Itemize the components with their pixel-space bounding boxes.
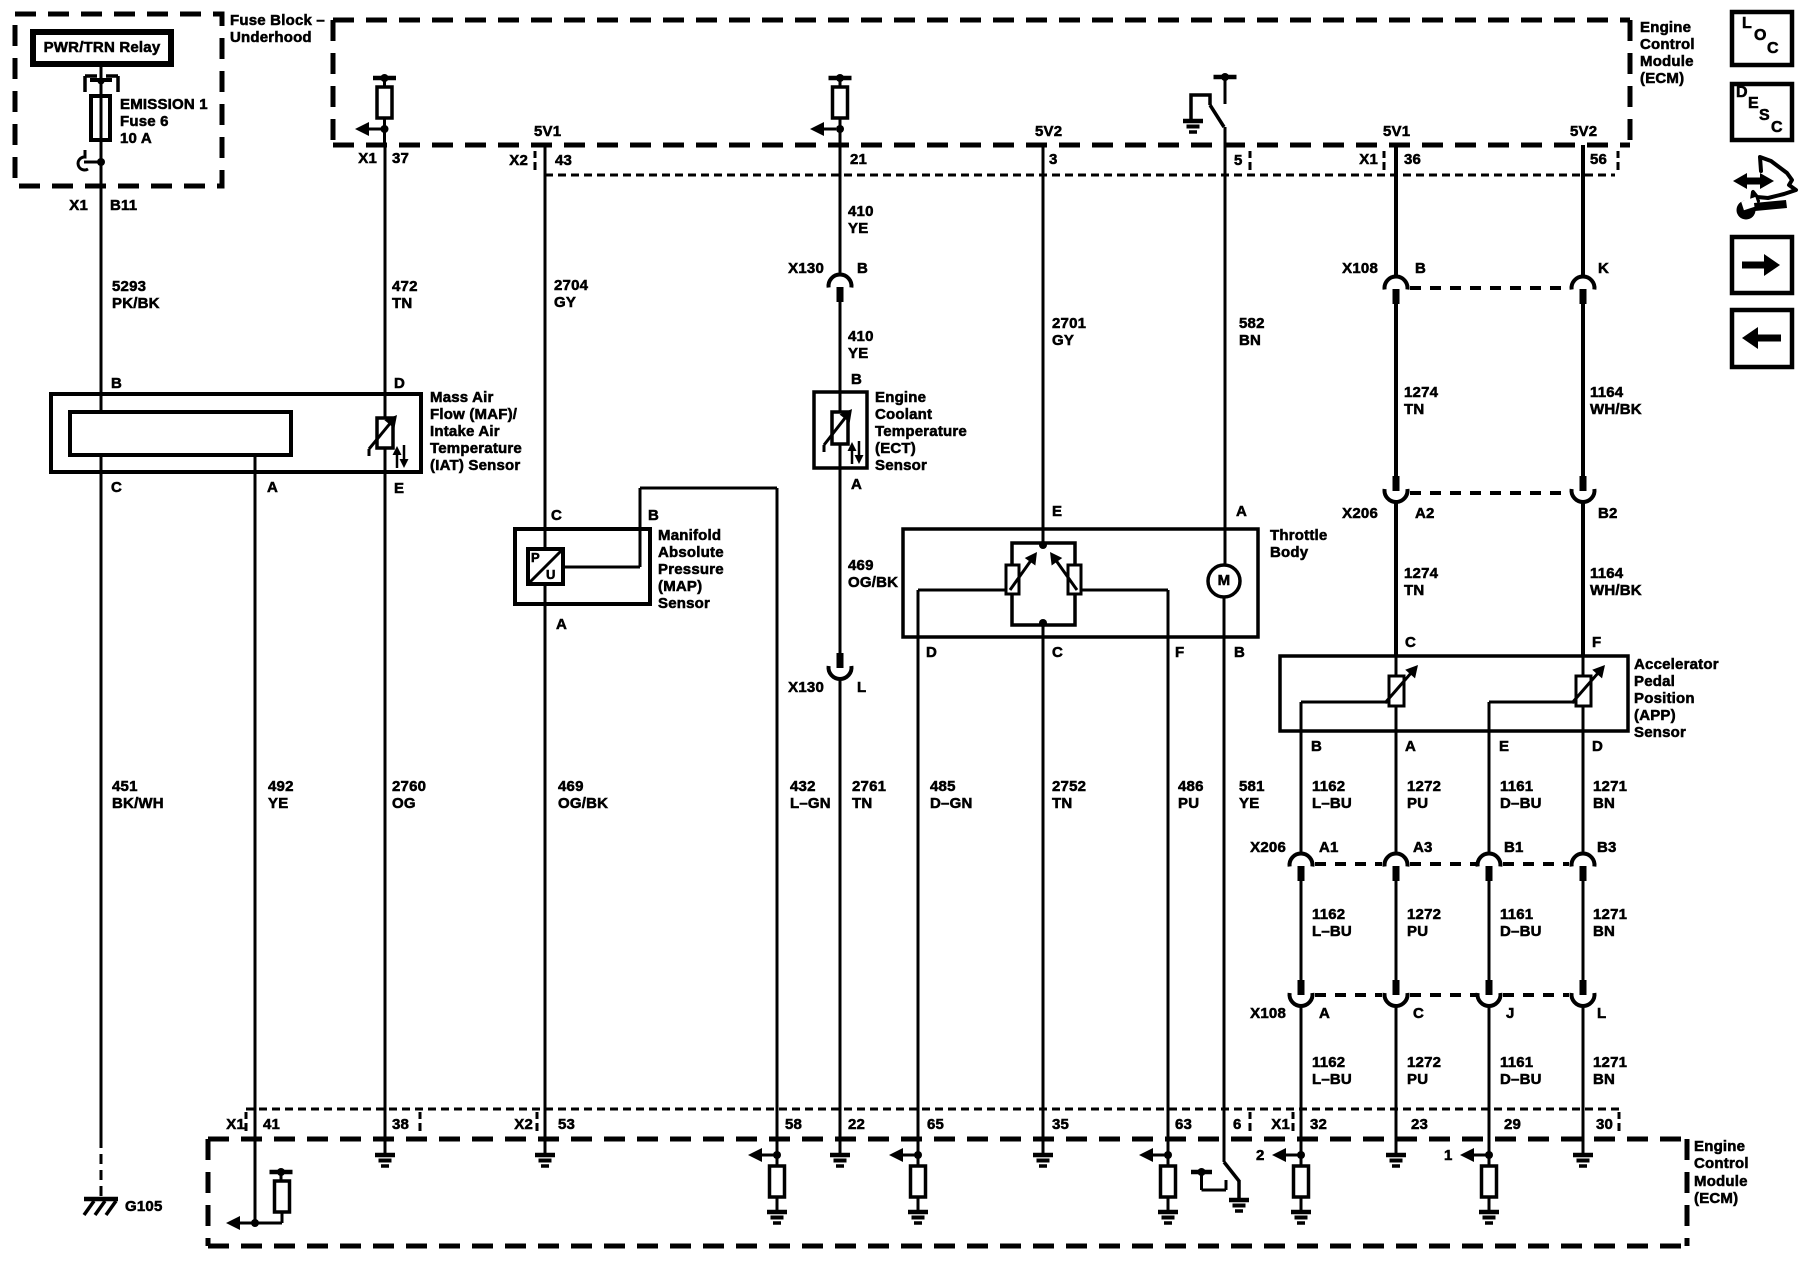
svg-text:C: C [1771, 119, 1783, 136]
svg-text:E: E [394, 480, 404, 497]
wire 451 BK/WH MAF C to G105 [100, 472, 103, 1138]
X206 A2-B2 connector dashed link [1410, 491, 1569, 495]
ECT sensor box [814, 392, 867, 468]
svg-text:5: 5 [1234, 152, 1243, 169]
svg-text:1272: 1272 [1407, 906, 1441, 923]
svg-text:1164: 1164 [1590, 384, 1624, 401]
svg-text:Flow (MAF)/: Flow (MAF)/ [430, 406, 518, 423]
in-line connector X108 pin J [1486, 980, 1493, 995]
svg-text:1271: 1271 [1593, 778, 1627, 795]
wire 1161 D-BU X206 to X108 [1488, 881, 1491, 980]
svg-text:Mass Air: Mass Air [430, 389, 494, 406]
svg-text:X1: X1 [1359, 151, 1378, 168]
svg-text:D: D [394, 375, 405, 392]
fuse block - underhood dashed box [15, 14, 222, 186]
wire 2704 GY pin43 to MAP C [544, 145, 547, 529]
APP potentiometer 1 [1389, 676, 1404, 706]
ECM internal ground at pin 30 [1582, 1142, 1585, 1155]
svg-text:BN: BN [1593, 795, 1615, 812]
svg-text:OG/BK: OG/BK [848, 574, 898, 591]
svg-text:Position: Position [1634, 690, 1695, 707]
svg-text:B2: B2 [1598, 505, 1618, 522]
svg-text:BN: BN [1593, 923, 1615, 940]
X108 B-K connector dashed link [1410, 286, 1569, 290]
wire 1272 PU X108 to pin 23 [1395, 1006, 1398, 1142]
svg-text:2760: 2760 [392, 778, 426, 795]
ECM internal arrow at pin 21 [822, 128, 836, 131]
svg-text:BK/WH: BK/WH [112, 795, 164, 812]
wire 469 OG/BK ECT A to X130 L [839, 468, 842, 653]
svg-text:2752: 2752 [1052, 778, 1086, 795]
svg-text:GY: GY [554, 294, 576, 311]
svg-text:TN: TN [1404, 401, 1424, 418]
LOC icon box [1732, 12, 1792, 65]
svg-text:X108: X108 [1250, 1005, 1286, 1022]
svg-text:5V1: 5V1 [534, 123, 561, 140]
wire 1274 TN X108 to X206 A2 [1394, 304, 1398, 476]
svg-text:WH/BK: WH/BK [1590, 582, 1642, 599]
in-line connector X130 pin L [837, 653, 844, 668]
svg-text:D–BU: D–BU [1500, 923, 1542, 940]
svg-text:D–GN: D–GN [930, 795, 972, 812]
ECM internal circuit at pin 32 [1300, 1139, 1303, 1166]
wire 1161 D-BU X108 to pin 29 [1488, 1006, 1491, 1142]
svg-text:B3: B3 [1597, 839, 1617, 856]
wire 469 OG/BK MAP A to pin 53 [544, 604, 547, 1142]
svg-text:10 A: 10 A [120, 130, 152, 147]
svg-text:U: U [546, 567, 556, 582]
in-line connector X130 pin B [829, 274, 852, 287]
svg-text:(ECT): (ECT) [875, 440, 916, 457]
harness repair icon (double arrow and wrench) [1745, 178, 1762, 185]
svg-text:E: E [1499, 738, 1509, 755]
svg-text:1162: 1162 [1312, 1054, 1345, 1071]
svg-text:A: A [267, 479, 278, 496]
ECM internal switch to ground at pin 6 [1223, 1142, 1226, 1162]
ECM internal ground at pin 53 [544, 1142, 547, 1155]
svg-text:1274: 1274 [1404, 384, 1439, 401]
svg-text:Throttle: Throttle [1270, 527, 1327, 544]
svg-text:Pressure: Pressure [658, 561, 724, 578]
in-line connector X108 pin C [1393, 980, 1400, 995]
APP pin D wire [1582, 706, 1585, 731]
ECM internal circuit at pin 58 [776, 1139, 779, 1166]
svg-text:TN: TN [1404, 582, 1424, 599]
wire 1272 PU X206 to X108 [1395, 881, 1398, 980]
svg-text:65: 65 [927, 1116, 944, 1133]
svg-text:B: B [648, 507, 659, 524]
svg-text:GY: GY [1052, 332, 1074, 349]
svg-text:472: 472 [392, 278, 418, 295]
svg-text:582: 582 [1239, 315, 1265, 332]
svg-text:(IAT) Sensor: (IAT) Sensor [430, 457, 520, 474]
svg-text:X1: X1 [226, 1116, 245, 1133]
svg-text:L: L [857, 679, 866, 696]
svg-text:1271: 1271 [1593, 1054, 1627, 1071]
svg-text:30: 30 [1596, 1116, 1613, 1133]
throttle pin F wire [1081, 589, 1168, 592]
svg-text:Sensor: Sensor [875, 457, 927, 474]
svg-text:X130: X130 [788, 260, 824, 277]
svg-text:1164: 1164 [1590, 565, 1624, 582]
svg-text:1271: 1271 [1593, 906, 1627, 923]
svg-text:O: O [1754, 27, 1767, 44]
throttle pin C wire [1042, 623, 1045, 1142]
svg-text:K: K [1598, 260, 1609, 277]
ECM internal ground at pin 35 [1042, 1142, 1045, 1155]
svg-text:C: C [551, 507, 562, 524]
svg-text:L: L [1597, 1005, 1606, 1022]
DESC icon box [1732, 84, 1792, 140]
svg-text:X2: X2 [509, 152, 528, 169]
svg-text:D–BU: D–BU [1500, 795, 1542, 812]
wire 1271 BN APP D [1582, 731, 1585, 853]
svg-text:Pedal: Pedal [1634, 673, 1675, 690]
fuse EMISSION 1 Fuse 6 10 A [100, 86, 103, 162]
svg-text:A: A [1319, 1005, 1330, 1022]
svg-text:B: B [111, 375, 122, 392]
relay contact symbol [100, 64, 103, 86]
svg-text:1272: 1272 [1407, 1054, 1441, 1071]
svg-text:B: B [1311, 738, 1322, 755]
in-line connector X206 pin A3 [1385, 853, 1408, 866]
svg-text:E: E [1052, 503, 1062, 520]
svg-text:X1: X1 [1271, 1116, 1290, 1133]
wire 2760 OG MAF E to pin 38 [384, 472, 387, 1142]
svg-text:PU: PU [1407, 923, 1428, 940]
svg-text:37: 37 [392, 150, 409, 167]
wire 582 BN pin 5 to throttle A [1224, 145, 1227, 529]
svg-text:451: 451 [112, 778, 138, 795]
svg-text:D–BU: D–BU [1500, 1071, 1542, 1088]
svg-text:A3: A3 [1413, 839, 1433, 856]
svg-text:B: B [1234, 644, 1245, 661]
MAP pressure transducer P/U symbol [528, 549, 563, 584]
MAF pin A [254, 455, 257, 472]
svg-text:L–BU: L–BU [1312, 1071, 1352, 1088]
svg-text:21: 21 [850, 151, 867, 168]
svg-text:Engine: Engine [875, 389, 926, 406]
svg-text:X206: X206 [1250, 839, 1286, 856]
fuse output clip symbol [78, 150, 88, 170]
ECM internal resistor at pin 37 with 12V tap [373, 76, 396, 81]
svg-text:TN: TN [852, 795, 872, 812]
svg-text:YE: YE [1239, 795, 1259, 812]
svg-text:2704: 2704 [554, 277, 589, 294]
in-line connector X206 pin A2 [1393, 476, 1400, 491]
svg-text:6: 6 [1233, 1116, 1242, 1133]
svg-text:PWR/TRN Relay: PWR/TRN Relay [44, 39, 161, 56]
svg-text:Fuse Block –: Fuse Block – [230, 12, 325, 29]
svg-text:Underhood: Underhood [230, 29, 312, 46]
wire fuse to MAF pin B [100, 162, 103, 394]
svg-text:OG/BK: OG/BK [558, 795, 608, 812]
wire 1162 L-BU X108 to pin 32 [1300, 1006, 1303, 1142]
svg-text:L: L [1742, 15, 1752, 32]
svg-text:A: A [851, 476, 862, 493]
throttle body box [903, 529, 1258, 637]
svg-text:E: E [1748, 95, 1759, 112]
ECM internal circuit at pin 65 [917, 1139, 920, 1166]
MAF pin C [100, 455, 103, 472]
svg-text:486: 486 [1178, 778, 1204, 795]
throttle TP sensor potentiometer 1 [1006, 565, 1019, 594]
APP pin B wire [1301, 701, 1389, 704]
in-line connector X206 pin B2 [1580, 476, 1587, 491]
svg-text:C: C [1413, 1005, 1424, 1022]
in-line connector X206 pin B3 [1572, 853, 1595, 866]
in-line connector X206 pin A1 [1290, 853, 1313, 866]
wire 2701 GY pin 3 to throttle E [1042, 145, 1045, 529]
svg-text:32: 32 [1310, 1116, 1327, 1133]
svg-text:(MAP): (MAP) [658, 578, 702, 595]
svg-text:L–BU: L–BU [1312, 795, 1352, 812]
svg-text:1161: 1161 [1500, 778, 1533, 795]
ECM top connector pin strip [545, 174, 1615, 177]
svg-text:Control: Control [1640, 36, 1695, 53]
svg-text:5293: 5293 [112, 278, 146, 295]
svg-text:B: B [851, 371, 862, 388]
svg-text:Sensor: Sensor [1634, 724, 1686, 741]
in-line connector X108 pin L [1580, 980, 1587, 995]
svg-text:5V1: 5V1 [1383, 123, 1410, 140]
svg-text:X1: X1 [358, 150, 377, 167]
svg-text:Intake Air: Intake Air [430, 423, 500, 440]
svg-text:A: A [1405, 738, 1416, 755]
wire 1271 BN X108 to pin 30 [1582, 1006, 1585, 1142]
wire 1161 D-BU APP E [1488, 731, 1491, 853]
svg-text:2761: 2761 [852, 778, 886, 795]
svg-text:B1: B1 [1504, 839, 1524, 856]
svg-text:C: C [1052, 644, 1063, 661]
ECM internal circuit at pin 29 [1488, 1139, 1491, 1166]
svg-text:38: 38 [392, 1116, 409, 1133]
wire 1164 WH/BK X108 to X206 B2 [1581, 304, 1585, 476]
svg-text:L–BU: L–BU [1312, 923, 1352, 940]
svg-text:A1: A1 [1319, 839, 1339, 856]
svg-text:F: F [1175, 644, 1184, 661]
ECT thermistor [839, 392, 842, 468]
APP pin A wire [1395, 706, 1398, 731]
svg-text:C: C [1405, 634, 1416, 651]
wire 1272 PU APP A [1395, 731, 1398, 853]
MAP internal wire to pin B [563, 566, 640, 569]
svg-text:41: 41 [263, 1116, 280, 1133]
throttle TP sensor potentiometer 2 [1068, 565, 1081, 594]
engine control module (ECM) bottom dashed box [208, 1139, 1687, 1246]
svg-text:C: C [111, 479, 122, 496]
chassis ground G105 [84, 1197, 118, 1202]
svg-text:TN: TN [392, 295, 412, 312]
svg-text:YE: YE [848, 345, 868, 362]
svg-text:EMISSION 1: EMISSION 1 [120, 96, 208, 113]
svg-text:2701: 2701 [1052, 315, 1086, 332]
svg-text:5V2: 5V2 [1570, 123, 1597, 140]
svg-text:B: B [857, 260, 868, 277]
in-line connector X108 pin B [1385, 276, 1408, 289]
MAF pin B [100, 394, 103, 412]
svg-text:Sensor: Sensor [658, 595, 710, 612]
APP sensor box [1280, 656, 1628, 731]
svg-text:Accelerator: Accelerator [1634, 656, 1719, 673]
svg-text:G105: G105 [125, 1198, 163, 1215]
svg-text:BN: BN [1239, 332, 1261, 349]
svg-text:J: J [1506, 1005, 1515, 1022]
wire 410 YE X130 to ECT B [839, 302, 842, 392]
svg-text:S: S [1759, 107, 1770, 124]
wire 1274 TN X206 to APP C [1394, 502, 1398, 656]
svg-text:1274: 1274 [1404, 565, 1439, 582]
svg-text:B: B [1415, 260, 1426, 277]
svg-text:Manifold: Manifold [658, 527, 721, 544]
throttle TP sensor inner box [1012, 543, 1075, 625]
in-line connector X206 pin B1 [1478, 853, 1501, 866]
svg-text:PU: PU [1407, 1071, 1428, 1088]
wire 1271 BN X206 to X108 [1582, 881, 1585, 980]
svg-text:23: 23 [1411, 1116, 1428, 1133]
svg-text:M: M [1218, 572, 1231, 589]
svg-text:Temperature: Temperature [875, 423, 967, 440]
next page arrow icon [1732, 237, 1792, 293]
svg-text:410: 410 [848, 203, 874, 220]
svg-text:A: A [556, 616, 567, 633]
X108 row dashed links [1315, 993, 1382, 997]
svg-text:Module: Module [1640, 53, 1694, 70]
wire 472 TN pin37 to MAF D [384, 145, 387, 394]
svg-text:36: 36 [1404, 151, 1421, 168]
svg-text:Fuse 6: Fuse 6 [120, 113, 169, 130]
svg-text:D: D [1736, 84, 1748, 101]
throttle pin B wire [1223, 597, 1226, 637]
svg-text:410: 410 [848, 328, 874, 345]
svg-text:D: D [926, 644, 937, 661]
ECM bottom connector pin strip [246, 1108, 1619, 1111]
ECM internal ground at pin 38 [384, 1142, 387, 1155]
svg-text:1161: 1161 [1500, 906, 1533, 923]
svg-text:58: 58 [785, 1116, 802, 1133]
svg-text:PK/BK: PK/BK [112, 295, 160, 312]
svg-text:L–GN: L–GN [790, 795, 831, 812]
svg-text:B11: B11 [110, 197, 137, 214]
wire 410 YE pin 21 to X130 [839, 145, 842, 274]
svg-text:OG: OG [392, 795, 416, 812]
MAP sensor box [515, 529, 650, 604]
svg-text:A2: A2 [1415, 505, 1435, 522]
svg-text:1162: 1162 [1312, 906, 1345, 923]
svg-text:Temperature: Temperature [430, 440, 522, 457]
svg-text:469: 469 [848, 557, 874, 574]
svg-text:WH/BK: WH/BK [1590, 401, 1642, 418]
svg-text:1161: 1161 [1500, 1054, 1533, 1071]
svg-text:581: 581 [1239, 778, 1265, 795]
svg-text:(ECM): (ECM) [1694, 1190, 1738, 1207]
wire 1274 TN pin 36 to X108 B [1394, 145, 1398, 276]
svg-text:P: P [531, 550, 540, 565]
svg-text:D: D [1592, 738, 1603, 755]
svg-text:Engine: Engine [1694, 1138, 1745, 1155]
APP potentiometer 2 [1576, 676, 1591, 706]
svg-text:(ECM): (ECM) [1640, 70, 1684, 87]
svg-text:Coolant: Coolant [875, 406, 932, 423]
ECM internal ground at pin 22 [839, 1142, 842, 1155]
svg-text:(APP): (APP) [1634, 707, 1676, 724]
svg-text:3: 3 [1049, 151, 1058, 168]
ECM internal resistor at pin 21 with 12V tap [829, 76, 852, 81]
wire 432 L-GN MAP B to pin 58 [640, 487, 777, 490]
svg-text:YE: YE [268, 795, 288, 812]
ECM internal arrow at pin 37 [367, 128, 381, 131]
wire 1162 L-BU X206 to X108 [1300, 881, 1303, 980]
svg-text:Control: Control [1694, 1155, 1749, 1172]
svg-text:492: 492 [268, 778, 294, 795]
svg-text:Engine: Engine [1640, 19, 1691, 36]
ECM internal switch to ground at pin 5 [1214, 75, 1237, 80]
svg-text:35: 35 [1052, 1116, 1069, 1133]
svg-text:485: 485 [930, 778, 956, 795]
MAP pin A [544, 584, 547, 604]
throttle pin D wire [918, 589, 1006, 592]
svg-text:X2: X2 [514, 1116, 533, 1133]
in-line connector X108 pin K [1572, 276, 1595, 289]
ECM internal circuit at pin 63 [1167, 1139, 1170, 1166]
svg-text:63: 63 [1175, 1116, 1192, 1133]
svg-text:56: 56 [1590, 151, 1607, 168]
svg-text:Absolute: Absolute [658, 544, 724, 561]
svg-text:F: F [1592, 634, 1601, 651]
svg-text:Module: Module [1694, 1173, 1748, 1190]
in-line connector X108 pin A [1298, 980, 1305, 995]
IAT thermistor inside MAF [384, 394, 387, 472]
svg-text:1162: 1162 [1312, 778, 1345, 795]
svg-text:2: 2 [1256, 1147, 1265, 1164]
svg-text:PU: PU [1178, 795, 1199, 812]
svg-text:43: 43 [555, 152, 572, 169]
ECM internal ground at pin 23 [1395, 1142, 1398, 1155]
svg-text:X108: X108 [1342, 260, 1378, 277]
svg-text:1272: 1272 [1407, 778, 1441, 795]
svg-text:YE: YE [848, 220, 868, 237]
wire 2761 TN X130 L to pin 22 [839, 679, 842, 1142]
previous page arrow icon [1732, 310, 1792, 367]
wire 1162 L-BU APP B [1300, 731, 1303, 853]
throttle motor M [1208, 565, 1240, 597]
svg-text:Body: Body [1270, 544, 1309, 561]
svg-text:X1: X1 [69, 197, 88, 214]
svg-text:PU: PU [1407, 795, 1428, 812]
svg-text:A: A [1236, 503, 1247, 520]
svg-text:53: 53 [558, 1116, 575, 1133]
svg-text:5V2: 5V2 [1035, 123, 1062, 140]
svg-text:TN: TN [1052, 795, 1072, 812]
svg-text:22: 22 [848, 1116, 865, 1133]
wire 1164 WH/BK X206 to APP F [1581, 502, 1585, 656]
X206 row dashed links [1315, 862, 1382, 866]
APP pin E wire [1489, 701, 1576, 704]
wire 1164 WH/BK pin 56 to X108 K [1581, 145, 1585, 276]
MAF sensor box [51, 394, 421, 472]
ECM internal ground at pin 5 [1183, 119, 1203, 124]
svg-text:469: 469 [558, 778, 584, 795]
wire 492 YE MAF A to pin 41 [254, 472, 257, 1139]
svg-text:X206: X206 [1342, 505, 1378, 522]
svg-text:BN: BN [1593, 1071, 1615, 1088]
svg-text:C: C [1767, 40, 1779, 57]
svg-text:X130: X130 [788, 679, 824, 696]
svg-text:1: 1 [1444, 1147, 1453, 1164]
svg-text:29: 29 [1504, 1116, 1521, 1133]
engine control module (ECM) top dashed box [333, 20, 1630, 145]
svg-text:432: 432 [790, 778, 816, 795]
